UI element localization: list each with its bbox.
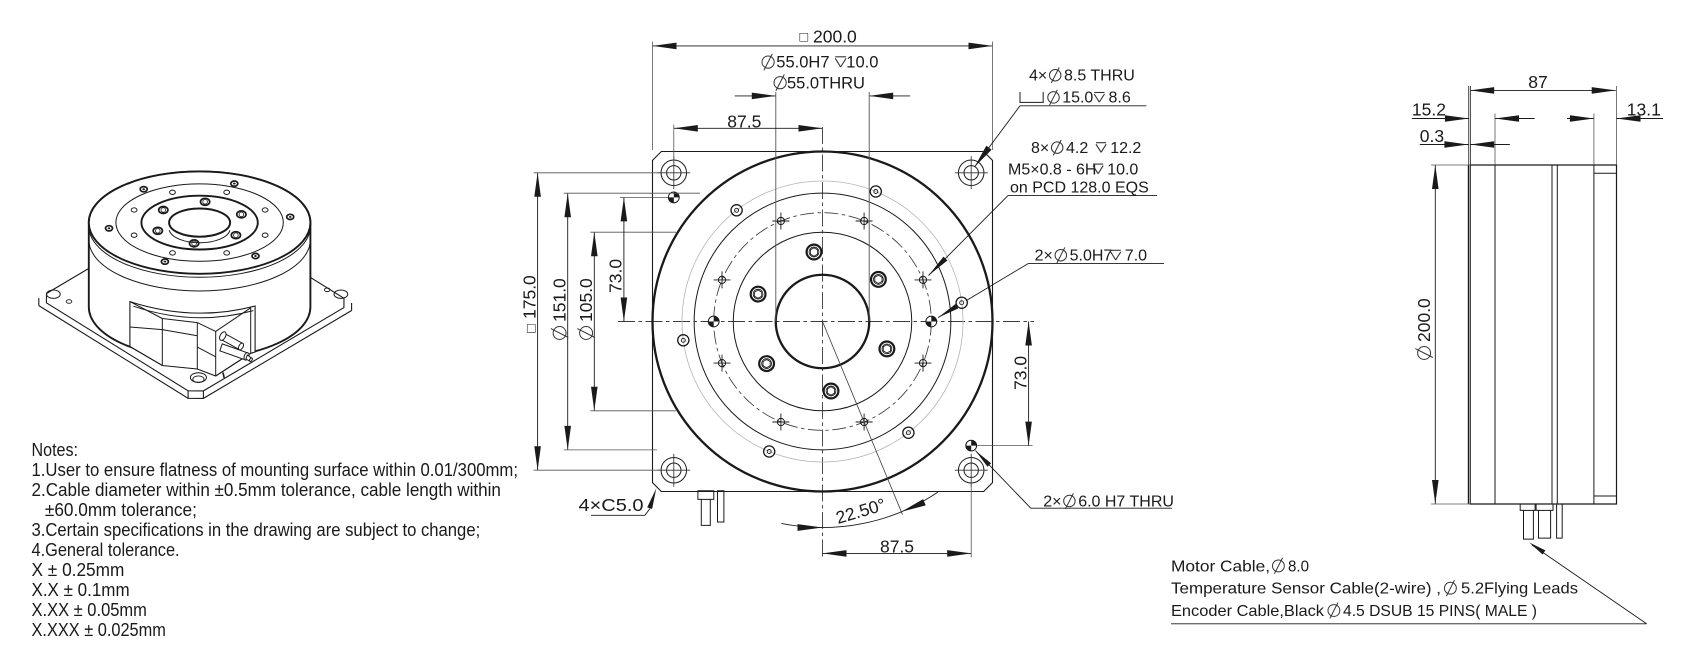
svg-text:M5×0.8 - 6H: M5×0.8 - 6H <box>1008 161 1096 178</box>
svg-text:X.X ± 0.1mm: X.X ± 0.1mm <box>32 580 130 600</box>
svg-text:2×: 2× <box>1035 248 1053 265</box>
center bore D55 <box>776 275 870 369</box>
outer circle D200 <box>653 152 993 492</box>
angle arc 22.50 <box>781 492 937 527</box>
6 small holes PCD165 <box>956 297 967 308</box>
svg-text:Notes:: Notes: <box>32 440 79 460</box>
22.5 degree line <box>823 322 903 515</box>
dim 73.0 right <box>1028 322 1030 446</box>
circle D151 <box>694 193 951 450</box>
iso base plate top <box>46 210 344 391</box>
iso top face <box>89 171 311 273</box>
svg-text:4.General tolerance.: 4.General tolerance. <box>32 540 180 560</box>
svg-text:87: 87 <box>1528 72 1547 92</box>
side cable leader <box>1532 545 1647 624</box>
svg-text:Temperature Sensor Cable(2-wir: Temperature Sensor Cable(2-wire) , <box>1171 581 1441 598</box>
horizontal centerline <box>618 321 1034 323</box>
dim 87 side top <box>1470 89 1616 91</box>
svg-text:Motor Cable,: Motor Cable, <box>1171 558 1270 575</box>
svg-text:10.0: 10.0 <box>1107 161 1138 178</box>
dowel hole right on PCD128 <box>926 316 937 327</box>
dim square 175.0 left <box>537 173 539 470</box>
iso corner holes <box>47 290 61 298</box>
iso cylinder silhouette <box>89 171 311 358</box>
iso connector box <box>130 302 255 376</box>
box gusset edges <box>216 308 251 332</box>
svg-text:15.0: 15.0 <box>1062 90 1093 107</box>
svg-text:on PCD 128.0 EQS: on PCD 128.0 EQS <box>1010 180 1149 197</box>
svg-text:73.0: 73.0 <box>606 259 626 293</box>
side flange line <box>1494 165 1496 504</box>
dim D200.0 side <box>1434 165 1436 504</box>
svg-text:3.Certain specifications in th: 3.Certain specifications in the drawing … <box>32 520 481 540</box>
svg-text:8.6: 8.6 <box>1109 90 1131 107</box>
svg-text:4.5 DSUB 15 PINS( MALE ): 4.5 DSUB 15 PINS( MALE ) <box>1343 603 1537 620</box>
bolt circle PCD128 dash-dot <box>714 213 932 431</box>
svg-text:55.0THRU: 55.0THRU <box>787 74 865 92</box>
svg-text:5.0H7: 5.0H7 <box>1070 248 1113 265</box>
box grid lines <box>130 327 162 330</box>
vertical centerline <box>822 127 824 557</box>
svg-text:151.0: 151.0 <box>550 278 570 322</box>
box roof front edge <box>133 306 253 318</box>
svg-text:X.XXX ± 0.025mm: X.XXX ± 0.025mm <box>32 620 166 640</box>
svg-text:8×: 8× <box>1031 140 1049 157</box>
svg-text:175.0: 175.0 <box>520 275 540 319</box>
dim 87.5 top <box>674 127 823 129</box>
side groove lines <box>1551 165 1553 504</box>
dim D55.0H7 depth 10.0 <box>762 56 774 68</box>
svg-text:±60.0mm tolerance;: ±60.0mm tolerance; <box>45 500 197 520</box>
side left face double line <box>1467 165 1469 504</box>
svg-text:10.0: 10.0 <box>846 54 878 72</box>
svg-text:4×C5.0: 4×C5.0 <box>579 495 644 515</box>
dim 87.5 bottom <box>823 552 972 554</box>
svg-text:55.0H7: 55.0H7 <box>776 54 829 72</box>
corner counterbore holes 4x D8.5/D15 <box>667 166 681 180</box>
svg-text:□: □ <box>524 324 540 333</box>
iso M5 holes <box>262 208 268 212</box>
svg-text:15.2: 15.2 <box>1412 100 1446 120</box>
svg-text:12.2: 12.2 <box>1110 140 1141 157</box>
svg-text:4.2: 4.2 <box>1066 140 1088 157</box>
svg-text:□: □ <box>800 30 809 46</box>
svg-text:200.0: 200.0 <box>813 27 857 47</box>
svg-text:7.0: 7.0 <box>1125 248 1147 265</box>
iso hex screws <box>237 211 246 218</box>
box face top edges <box>130 302 162 319</box>
svg-text:X ± 0.25mm: X ± 0.25mm <box>32 560 125 580</box>
svg-text:200.0: 200.0 <box>1414 298 1434 342</box>
light circle PCD165 <box>682 181 963 462</box>
dowel hole bottom-right corner D6 <box>966 440 977 451</box>
svg-text:8.5 THRU: 8.5 THRU <box>1064 68 1135 85</box>
front view square plate <box>653 152 993 492</box>
box left bottom edge <box>130 347 162 366</box>
dim D151.0 left <box>567 193 569 450</box>
circle D105 <box>733 232 912 411</box>
iso PCD165 holes <box>287 214 294 219</box>
svg-text:X.XX ± 0.05mm: X.XX ± 0.05mm <box>32 600 147 620</box>
iso rim bevel arc <box>89 226 311 277</box>
iso seam arc <box>89 240 311 291</box>
front cable stubs <box>698 491 714 526</box>
svg-text:105.0: 105.0 <box>576 278 596 322</box>
svg-text:0.3: 0.3 <box>1420 126 1444 146</box>
encoder cover inset lines <box>1594 172 1617 174</box>
svg-text:8.0: 8.0 <box>1288 558 1309 575</box>
dim D105.0 left <box>593 232 595 411</box>
iso cable stubs <box>218 331 253 362</box>
svg-text:2.Cable diameter within ±0.5mm: 2.Cable diameter within ±0.5mm tolerance… <box>32 480 501 500</box>
dowel hole top-left corner D6 <box>668 192 679 203</box>
dim 73.0 left <box>623 197 625 321</box>
svg-text:Encoder Cable,Black: Encoder Cable,Black <box>1171 603 1325 620</box>
svg-text:5.2Flying Leads: 5.2Flying Leads <box>1461 581 1578 598</box>
box face edges <box>161 319 163 366</box>
side cable stubs <box>1520 504 1535 539</box>
svg-text:4×: 4× <box>1029 68 1047 85</box>
svg-text:87.5: 87.5 <box>727 111 761 131</box>
dowel hole left on PCD128 <box>708 316 719 327</box>
dim square 200.0 top <box>653 45 993 47</box>
svg-text:1.User to ensure flatness of m: 1.User to ensure flatness of mounting su… <box>32 460 519 480</box>
side view body <box>1470 165 1616 504</box>
svg-text:87.5: 87.5 <box>880 536 914 556</box>
side encoder cover line <box>1593 165 1595 504</box>
6 hex socket screws PCD82 <box>871 272 886 287</box>
iso small pin <box>223 373 224 378</box>
svg-text:73.0: 73.0 <box>1011 356 1031 390</box>
iso base plate thickness edges <box>39 306 352 399</box>
iso center bore <box>169 209 230 237</box>
8 tapped holes M5 PCD128 cross marks <box>919 276 926 283</box>
